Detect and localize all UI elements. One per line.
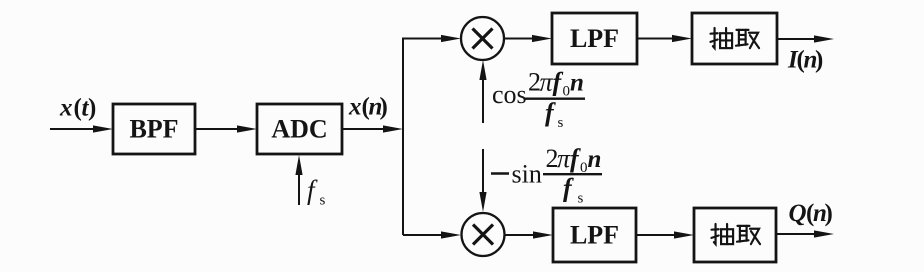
wire: LPF2 to decimator 2: [636, 231, 694, 238]
svg-text:): ): [380, 94, 388, 121]
char chou: [710, 28, 732, 48]
wire: ADC to branch node: [342, 125, 403, 132]
wire: input line into BPF: [50, 125, 113, 132]
svg-text:x: x: [59, 95, 73, 122]
svg-text:n: n: [588, 146, 602, 173]
svg-text:f: f: [563, 174, 574, 203]
svg-text:cos: cos: [492, 80, 527, 109]
wire: trunk to lower multiplier: [403, 231, 461, 238]
block BPF: [113, 104, 195, 154]
wire: trunk to upper multiplier: [402, 35, 461, 42]
svg-text:x: x: [348, 94, 362, 121]
svg-text:): ): [815, 47, 823, 74]
block decimator 1 (chou-qu, upper): [692, 13, 777, 64]
svg-text:f: f: [307, 175, 318, 205]
label cos 2*pi*f0*n / fs: [492, 68, 585, 132]
svg-text:s: s: [578, 191, 584, 207]
svg-text:π: π: [557, 144, 571, 173]
svg-text:): ): [825, 200, 833, 227]
multiplier M2 (lower): [462, 213, 505, 256]
wire: BPF to ADC: [195, 125, 257, 132]
wire: lower multiplier to LPF2: [505, 231, 554, 238]
block LPF1 (upper): [552, 13, 637, 64]
block ADC: [257, 104, 342, 154]
label fs: [307, 175, 326, 209]
label Q(n): [789, 200, 833, 227]
block decimator 2 (chou-qu, lower): [694, 208, 776, 262]
wire: decimator 2 output Q(n): [776, 230, 834, 237]
char qu: [737, 226, 760, 244]
label x(n): [348, 94, 388, 121]
wire: sine input down into lower multiplier: [479, 149, 486, 212]
wire: sampling clock fs into ADC: [295, 155, 302, 205]
block LPF2 (lower): [553, 208, 636, 262]
svg-text:Q: Q: [789, 200, 807, 227]
label I(n): [787, 47, 823, 74]
svg-text:f: f: [545, 98, 556, 127]
label -sin 2*pi*f0*n / fs: [491, 144, 602, 207]
wire: decimator 1 output I(n): [777, 35, 834, 42]
svg-text:n: n: [570, 70, 584, 97]
wire: upper multiplier to LPF1: [504, 35, 552, 42]
wire: vertical trunk at branch node: [402, 39, 404, 236]
svg-text:0: 0: [563, 84, 571, 100]
svg-text:s: s: [558, 115, 564, 131]
svg-text:): ): [88, 95, 96, 122]
svg-text:BPF: BPF: [129, 115, 178, 144]
svg-text:sin: sin: [512, 160, 542, 189]
wire: LPF1 to decimator 1: [637, 35, 692, 42]
wire: cosine input up into upper multiplier: [479, 60, 486, 123]
multiplier M1 (upper): [461, 17, 504, 60]
char chou: [711, 224, 733, 244]
label x(t): [59, 95, 96, 122]
svg-text:LPF: LPF: [570, 221, 619, 250]
svg-text:π: π: [540, 68, 554, 97]
svg-text:ADC: ADC: [271, 115, 327, 144]
char qu: [736, 30, 759, 48]
svg-text:LPF: LPF: [570, 24, 619, 53]
svg-text:s: s: [320, 193, 326, 209]
